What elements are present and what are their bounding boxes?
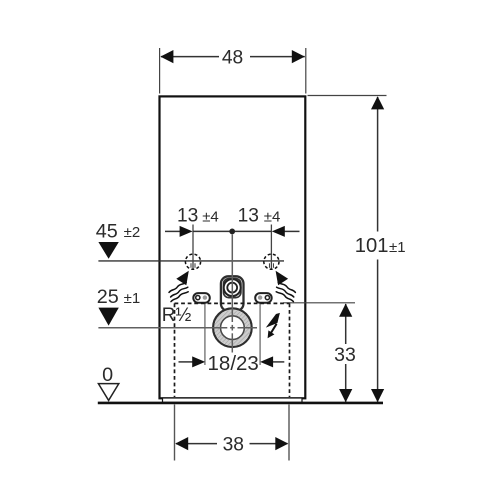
svg-text:±4: ±4: [264, 209, 281, 226]
svg-text:38: 38: [223, 434, 244, 455]
svg-text:0: 0: [102, 364, 113, 386]
svg-text:R½: R½: [162, 305, 192, 326]
svg-text:±2: ±2: [124, 224, 141, 241]
svg-text:±1: ±1: [124, 290, 141, 307]
svg-text:25: 25: [97, 286, 119, 308]
svg-text:±4: ±4: [202, 209, 219, 226]
svg-text:48: 48: [222, 48, 243, 69]
svg-text:13: 13: [238, 206, 259, 227]
svg-text:±1: ±1: [389, 239, 406, 256]
svg-text:18/23: 18/23: [208, 352, 259, 375]
svg-text:101: 101: [355, 235, 389, 257]
svg-text:33: 33: [334, 344, 356, 366]
svg-text:13: 13: [177, 206, 198, 227]
svg-text:45: 45: [96, 220, 118, 242]
